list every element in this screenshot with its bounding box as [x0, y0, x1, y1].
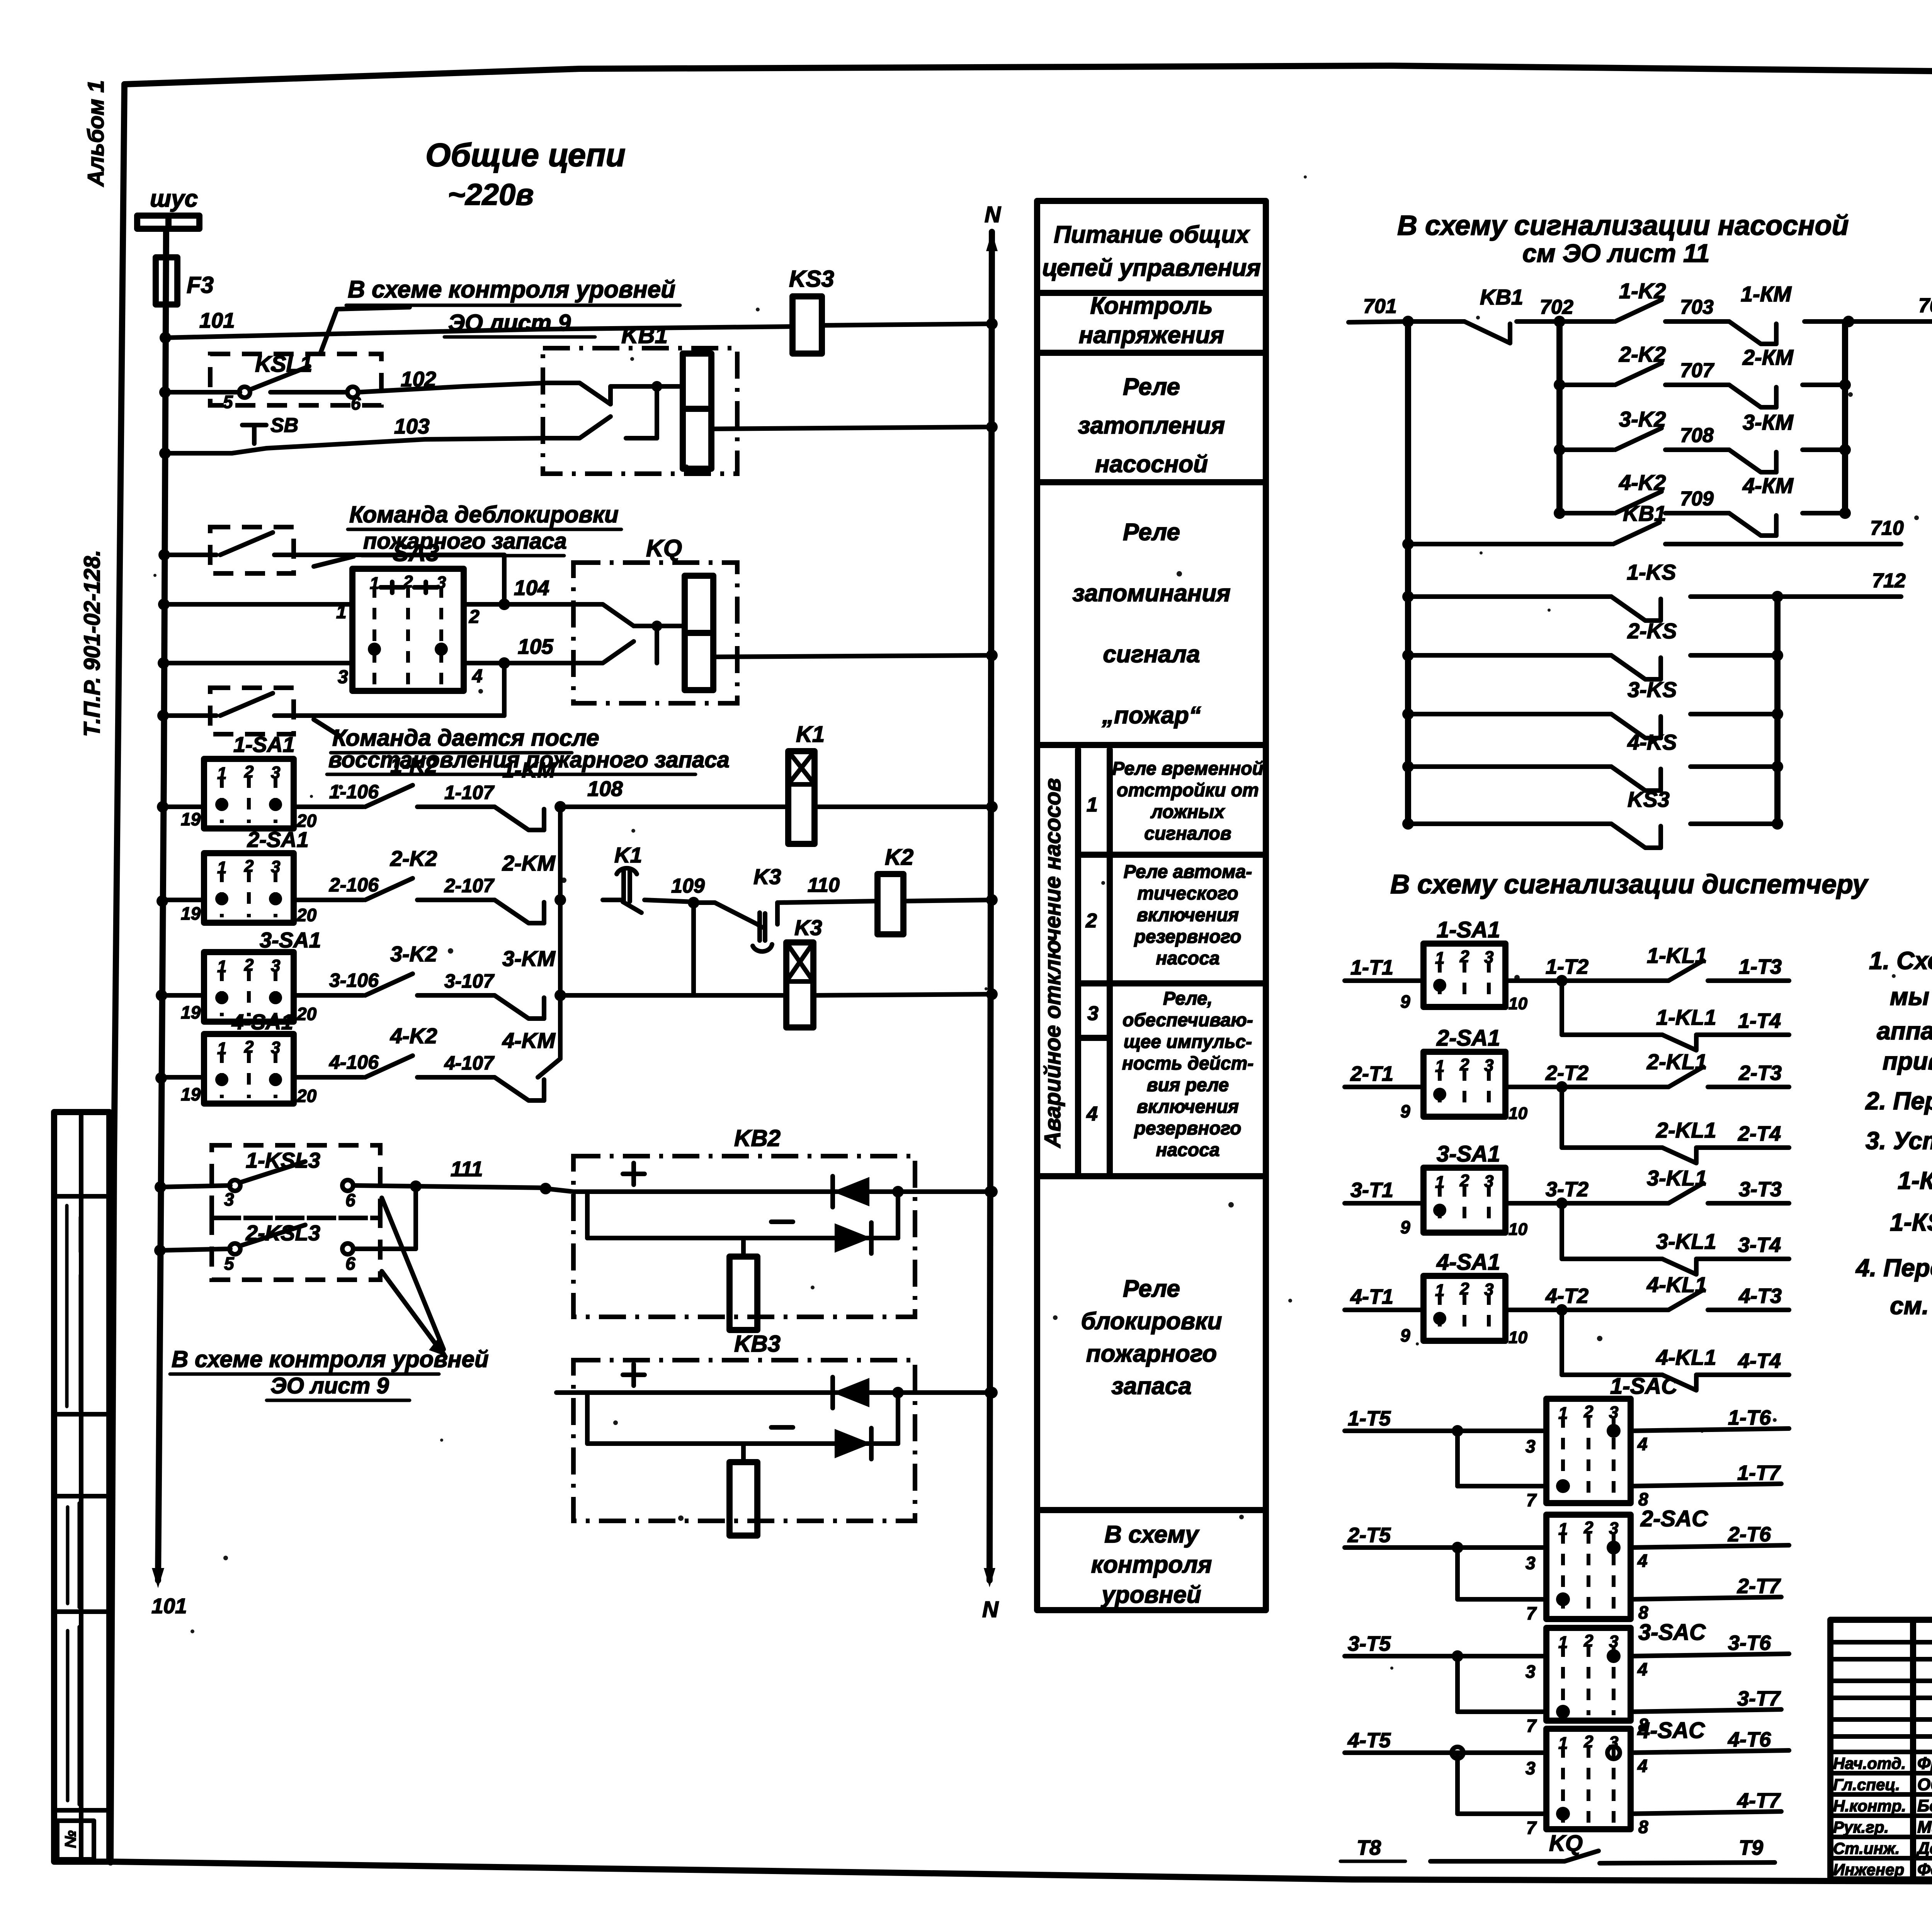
- svg-text:1: 1: [370, 574, 379, 593]
- svg-text:704: 704: [1918, 294, 1932, 317]
- wire 4-T2: [1505, 1308, 1668, 1312]
- wire 2-107: [417, 898, 495, 902]
- contact 3-KL1 b: [1662, 1259, 1696, 1274]
- node kls3-2: [154, 1245, 166, 1256]
- 3-SAC dot left: [1556, 1705, 1570, 1719]
- svg-text:В схеме контроля уровней: В схеме контроля уровней: [348, 276, 675, 303]
- relay KB2 dash-dot box: [573, 1156, 915, 1317]
- switch 2-SAC box: [1546, 1515, 1631, 1619]
- svg-text:20: 20: [296, 1086, 317, 1106]
- SA3 top position marks: [381, 582, 437, 593]
- wire T9: [1600, 1862, 1775, 1863]
- svg-text:3: 3: [1526, 1758, 1536, 1778]
- node row1: [157, 801, 168, 813]
- svg-text:1-Т7: 1-Т7: [1737, 1461, 1781, 1485]
- contact 2-КМ: [1729, 385, 1776, 407]
- svg-text:Команда дается после: Команда дается после: [332, 725, 599, 751]
- svg-text:2-KL1: 2-KL1: [1646, 1049, 1707, 1074]
- contact K1 (time): [603, 898, 622, 902]
- wire 1-T5: [1345, 1429, 1546, 1433]
- callout arrow to KSL3: [382, 1198, 444, 1349]
- contact 3-KS: [1402, 708, 1414, 720]
- junction N bus y2329: [986, 894, 998, 906]
- function table row line y913: [1037, 350, 1266, 356]
- svg-text:KQ: KQ: [1549, 1831, 1583, 1856]
- svg-text:2-106: 2-106: [329, 874, 379, 896]
- contact 3-K2: [1560, 447, 1613, 452]
- svg-text:4-Т1: 4-Т1: [1350, 1285, 1393, 1308]
- wire row3 to K3 coil: [560, 993, 786, 998]
- svg-text:4-Т5: 4-Т5: [1347, 1729, 1391, 1752]
- svg-text:4. Перечень элементов настояще: 4. Перечень элементов настоящей схемы: [1855, 1254, 1932, 1282]
- svg-text:включения: включения: [1137, 905, 1239, 925]
- wire 703: [1665, 319, 1729, 324]
- wire 109: [645, 900, 694, 902]
- svg-text:2-SA1: 2-SA1: [1436, 1026, 1500, 1051]
- svg-text:4-SA1: 4-SA1: [231, 1010, 293, 1034]
- svg-text:3: 3: [1526, 1553, 1536, 1573]
- svg-text:10: 10: [1509, 1220, 1527, 1239]
- svg-text:Команда деблокировки: Команда деблокировки: [349, 502, 619, 527]
- relay KB3 dash-dot box: [573, 1360, 915, 1521]
- relay coil KS3: [793, 296, 822, 354]
- svg-text:Общие цепи: Общие цепи: [425, 137, 626, 173]
- vertical link rows: [558, 807, 563, 1059]
- wire 4-T6: [1631, 1750, 1789, 1753]
- svg-text:4-Т2: 4-Т2: [1545, 1284, 1588, 1308]
- KB2 diode D2: [835, 1223, 871, 1253]
- svg-text:9: 9: [1400, 1325, 1410, 1345]
- svg-text:2-KS: 2-KS: [1627, 619, 1677, 643]
- contact 1-K2: [365, 785, 413, 807]
- button SB: [242, 425, 266, 444]
- wire 4-T1: [1345, 1308, 1423, 1312]
- contact 2-KSL3 dashed box: [212, 1218, 380, 1280]
- contact 3-KL1: [1668, 1183, 1703, 1203]
- wire bus to 2-KSL3: [160, 1249, 230, 1250]
- wire 102 left: [165, 390, 240, 395]
- signature table row y4350: [1830, 1679, 1932, 1683]
- svg-text:7: 7: [1526, 1716, 1537, 1736]
- svg-text:101: 101: [151, 1594, 187, 1618]
- node 109: [688, 897, 699, 908]
- wire 1-T4: [1696, 1032, 1789, 1037]
- svg-text:В схему сигнализации диспетчер: В схему сигнализации диспетчеру: [1390, 869, 1869, 899]
- node line102: [159, 386, 171, 398]
- svg-text:F3: F3: [187, 272, 214, 298]
- signature table row y4450: [1830, 1717, 1932, 1722]
- svg-text:2: 2: [1459, 1279, 1469, 1298]
- contact KSL1 dashed box: [210, 354, 381, 405]
- signature row Рук.гр.: [1830, 1835, 1932, 1839]
- svg-text:3. Уставки времени реле принят: 3. Уставки времени реле принять:: [1866, 1127, 1932, 1155]
- svg-text:4: 4: [1637, 1551, 1648, 1571]
- svg-text:2-КМ: 2-КМ: [1742, 345, 1794, 369]
- relay KB1 dash-dot box: [543, 348, 737, 474]
- svg-text:шус: шус: [150, 185, 198, 212]
- left margin stamp scribbles: [67, 1206, 80, 1410]
- svg-text:сигналов: сигналов: [1144, 823, 1231, 844]
- svg-text:KS3: KS3: [1628, 787, 1670, 811]
- wire to right bus y1328: [1803, 511, 1845, 515]
- svg-text:105: 105: [518, 634, 554, 658]
- svg-text:4-Т3: 4-Т3: [1738, 1284, 1782, 1308]
- junction N bus y3084: [985, 1186, 996, 1197]
- relay KQ contact: [573, 604, 634, 626]
- svg-text:1-KL1: 1-KL1: [1647, 943, 1707, 968]
- svg-text:Нач.отд.: Нач.отд.: [1833, 1754, 1906, 1772]
- svg-text:Гл.спец.: Гл.спец.: [1833, 1776, 1900, 1794]
- branch 4-T4: [1560, 1310, 1564, 1375]
- KB3 diode row2 wire: [587, 1441, 898, 1446]
- contact K3 (time): [694, 900, 715, 905]
- wire K3 to N bus: [813, 994, 992, 995]
- 2-SAC dot right: [1607, 1541, 1621, 1554]
- KB3 diode row1 wire: [573, 1390, 992, 1395]
- 1-SAC dot left: [1556, 1479, 1570, 1493]
- fuse F3: [156, 257, 177, 304]
- svg-text:4-SAC: 4-SAC: [1637, 1718, 1705, 1743]
- svg-text:1-K2: 1-K2: [1619, 279, 1666, 303]
- selector switch 4-SA1 disp box: [1423, 1276, 1505, 1341]
- svg-text:Мизяк: Мизяк: [1917, 1818, 1932, 1837]
- left bus nasosnaya: [1405, 321, 1411, 824]
- svg-text:102: 102: [401, 367, 436, 391]
- branch node left y996: [1554, 379, 1565, 391]
- svg-text:3: 3: [271, 956, 280, 975]
- 4-SAC dot left: [1556, 1807, 1570, 1821]
- svg-text:Дорофеев: Дорофеев: [1916, 1839, 1932, 1858]
- contact deblock dashed box: [210, 527, 294, 573]
- contact 1-K2 rung: [1560, 319, 1613, 324]
- function table num divider 3/4: [1078, 1035, 1110, 1041]
- svg-text:2: 2: [1583, 1631, 1594, 1650]
- svg-text:3: 3: [271, 1038, 280, 1057]
- wire T8: [1430, 1859, 1565, 1864]
- svg-text:KB1: KB1: [1623, 501, 1666, 526]
- node line104: [158, 599, 170, 610]
- contact deblock blade: [166, 553, 216, 557]
- contact 1-KL1 b: [1662, 1035, 1696, 1050]
- svg-text:10: 10: [1509, 1328, 1527, 1347]
- relay KQ dash-dot box: [573, 563, 737, 703]
- wire 2-T1: [1345, 1085, 1423, 1089]
- svg-text:4-K2: 4-K2: [390, 1024, 437, 1048]
- svg-text:KS3: KS3: [789, 266, 834, 292]
- svg-text:KB1: KB1: [621, 322, 668, 348]
- wire 105 left: [163, 661, 352, 665]
- branch node left y1328: [1554, 507, 1565, 519]
- wire 103 left: [164, 451, 232, 456]
- svg-text:110: 110: [808, 874, 840, 896]
- wire cmd2 to 105: [294, 713, 504, 718]
- svg-text:1-KL1: 1-KL1: [1656, 1005, 1716, 1029]
- contact KB1 rung2: [1402, 538, 1414, 550]
- svg-text:1-Т5: 1-Т5: [1348, 1407, 1391, 1430]
- signature table frame: [1830, 1620, 1932, 1879]
- svg-text:2: 2: [1085, 910, 1097, 932]
- wire 3-T5: [1345, 1654, 1546, 1658]
- KB3 coil: [741, 1444, 746, 1462]
- svg-text:712: 712: [1872, 570, 1906, 592]
- svg-text:3-Т6: 3-Т6: [1728, 1631, 1771, 1655]
- svg-text:1-Т1: 1-Т1: [1350, 956, 1393, 979]
- svg-text:5: 5: [223, 392, 233, 412]
- node row2: [156, 895, 168, 907]
- branch 2-T7 left: [1455, 1548, 1460, 1599]
- svg-text:В схему: В схему: [1104, 1521, 1200, 1548]
- wire KQ to N bus: [713, 655, 992, 657]
- wire 111: [353, 1185, 546, 1188]
- svg-text:2: 2: [244, 1037, 254, 1056]
- svg-text:10: 10: [1509, 994, 1527, 1013]
- svg-text:мы аналогичны. Цифра „1“ в лев: мы аналогичны. Цифра „1“ в левой части о…: [1890, 983, 1932, 1010]
- svg-text:насоса: насоса: [1156, 948, 1219, 969]
- svg-text:3-SA1: 3-SA1: [1437, 1141, 1500, 1167]
- svg-text:Реле: Реле: [1123, 1276, 1180, 1302]
- junction N bus y2573: [986, 988, 998, 1000]
- wire 1-107: [417, 804, 495, 809]
- wire 3-KS to right bus: [1690, 712, 1777, 716]
- node 4-T5: [1452, 1747, 1463, 1759]
- right branch bus: [1842, 321, 1848, 513]
- contact 2-KS: [1402, 650, 1414, 661]
- wire KB3 row1 stub: [556, 1390, 573, 1395]
- svg-text:4-KM: 4-KM: [502, 1028, 556, 1053]
- svg-text:707: 707: [1680, 359, 1714, 382]
- node cmd2: [157, 710, 169, 721]
- svg-text:4-K2: 4-K2: [1619, 470, 1666, 495]
- svg-text:1-107: 1-107: [444, 782, 495, 803]
- signature table row y4250: [1830, 1640, 1932, 1645]
- svg-text:3: 3: [1484, 1172, 1493, 1191]
- wire KB1 to N bus: [711, 427, 992, 429]
- signature row Н.контр.: [1830, 1813, 1932, 1818]
- signature row Ст.инж.: [1830, 1856, 1932, 1861]
- contact 1-KM rung: [1729, 321, 1776, 344]
- wire 3-T2: [1505, 1201, 1668, 1206]
- svg-text:1: 1: [1558, 1633, 1568, 1652]
- wire 109 branch down: [691, 903, 696, 995]
- wire 2-T4: [1696, 1145, 1789, 1150]
- switch 4-SAC box: [1546, 1729, 1631, 1829]
- 1-SAC dot right: [1607, 1424, 1621, 1438]
- svg-text:Инженер: Инженер: [1833, 1861, 1904, 1879]
- svg-text:KB1: KB1: [1480, 285, 1523, 309]
- KB2 diode D1: [833, 1177, 869, 1206]
- svg-text:1: 1: [1435, 1173, 1444, 1192]
- svg-text:В схеме контроля уровней: В схеме контроля уровней: [172, 1346, 489, 1372]
- svg-text:3: 3: [1484, 1280, 1493, 1299]
- svg-text:KB3: KB3: [734, 1331, 781, 1357]
- contact KSL1: [239, 387, 250, 398]
- svg-text:2: 2: [1583, 1518, 1594, 1537]
- 2-SAC dot left: [1556, 1592, 1570, 1606]
- function table inner row y2212: [1078, 852, 1266, 858]
- svg-text:Обозная: Обозная: [1917, 1775, 1932, 1794]
- wire 2-T3: [1708, 1085, 1789, 1089]
- svg-text:3-Т1: 3-Т1: [1350, 1179, 1393, 1202]
- function table row line y3908: [1037, 1507, 1266, 1513]
- svg-text:1: 1: [217, 1039, 226, 1058]
- contact 1-KM: [495, 807, 544, 830]
- selector switch SA3 box: [352, 569, 464, 691]
- node row3 vert: [554, 990, 566, 1001]
- svg-text:ложных: ложных: [1150, 802, 1225, 822]
- svg-text:Реле временной: Реле временной: [1112, 759, 1264, 779]
- svg-text:1-KM: 1-KM: [502, 758, 556, 782]
- KB2 plus sign: [623, 1163, 645, 1185]
- svg-text:2-107: 2-107: [444, 875, 495, 896]
- KB2 minus sign: [771, 1219, 793, 1224]
- svg-text:20: 20: [296, 1004, 317, 1024]
- svg-text:1-SA1: 1-SA1: [233, 732, 295, 757]
- wire 2-T7: [1631, 1597, 1781, 1599]
- wire 704: [1804, 319, 1932, 324]
- svg-text:4: 4: [1637, 1434, 1648, 1454]
- svg-text:SB: SB: [270, 414, 298, 437]
- wire 3-T7: [1631, 1709, 1781, 1712]
- wire 1-T6: [1631, 1429, 1789, 1431]
- branch 3-T7 left: [1455, 1656, 1460, 1712]
- contact 4-KS: [1402, 761, 1414, 772]
- svg-text:уровней: уровней: [1100, 1582, 1201, 1608]
- sheet top border frame: [124, 66, 1932, 84]
- signature table row y4534: [1830, 1750, 1932, 1754]
- svg-text:9: 9: [1400, 992, 1410, 1012]
- relay KB1 changeover contact: [546, 383, 611, 404]
- wire 1-T7: [1631, 1484, 1781, 1486]
- svg-text:блокировки: блокировки: [1081, 1308, 1222, 1335]
- contact KS3: [1402, 818, 1414, 830]
- wire bus to 4-SA1: [160, 1075, 204, 1080]
- svg-text:3-K2: 3-K2: [390, 942, 437, 966]
- selector switch 1-SA1 disp box: [1423, 944, 1505, 1007]
- svg-text:резервного: резервного: [1134, 927, 1242, 947]
- wire 4-106: [294, 1075, 363, 1080]
- switch 1-SAC box: [1546, 1399, 1631, 1503]
- wire 1-106: [294, 804, 363, 809]
- wire K1 to N bus: [815, 804, 992, 809]
- svg-text:3: 3: [1609, 1519, 1618, 1538]
- svg-text:701: 701: [1363, 295, 1397, 318]
- wire 702: [1517, 319, 1560, 324]
- svg-text:отстройки от: отстройки от: [1117, 780, 1259, 801]
- wire 105 right: [464, 661, 573, 665]
- wire 709: [1665, 511, 1729, 515]
- function table row line y3044: [1037, 1173, 1266, 1179]
- contact 3-K2: [365, 974, 413, 995]
- svg-text:702: 702: [1540, 296, 1573, 318]
- svg-text:3: 3: [1484, 948, 1493, 967]
- function table number col: [1107, 750, 1113, 1176]
- KB2 diode row1 wire: [573, 1189, 992, 1194]
- wire KS3 to right bus: [1690, 821, 1777, 826]
- contact 3-KM: [495, 995, 544, 1019]
- svg-text:9: 9: [1400, 1217, 1410, 1237]
- node row2 vert: [554, 894, 566, 906]
- svg-text:19: 19: [181, 1084, 201, 1104]
- svg-text:103: 103: [394, 414, 430, 438]
- svg-text:3-KL1: 3-KL1: [1656, 1229, 1716, 1253]
- svg-text:Н.контр.: Н.контр.: [1833, 1797, 1906, 1815]
- svg-text:KB2: KB2: [734, 1125, 781, 1151]
- svg-text:9: 9: [1400, 1101, 1410, 1121]
- node deblock: [158, 549, 170, 561]
- wire 101 to KS3: [165, 327, 793, 338]
- svg-text:3: 3: [224, 1189, 234, 1209]
- node kls3-1: [155, 1181, 166, 1193]
- wire 2-106: [294, 898, 363, 902]
- svg-text:4-KS: 4-KS: [1627, 730, 1677, 754]
- svg-text:4-Т7: 4-Т7: [1737, 1789, 1781, 1812]
- node row3: [156, 990, 167, 1001]
- svg-text:4-Т4: 4-Т4: [1738, 1349, 1781, 1372]
- svg-text:1-КМ: 1-КМ: [1741, 282, 1792, 306]
- svg-text:3-SA1: 3-SA1: [260, 928, 321, 952]
- svg-text:3-Т2: 3-Т2: [1546, 1178, 1588, 1201]
- svg-text:5: 5: [224, 1253, 235, 1274]
- svg-text:аппаратов и маркировки цепей,: аппаратов и маркировки цепей, обозначающ…: [1877, 1017, 1932, 1045]
- node line103: [159, 447, 171, 459]
- KB2 node after D1: [892, 1186, 904, 1197]
- wire to right bus y1164: [1803, 447, 1845, 452]
- svg-text:3-Т7: 3-Т7: [1737, 1687, 1781, 1710]
- svg-text:Питание общих: Питание общих: [1054, 221, 1250, 248]
- signature row Инженер: [1830, 1877, 1932, 1882]
- node 3-T5: [1452, 1650, 1463, 1662]
- wire 2-T6: [1631, 1545, 1789, 1548]
- svg-text:Т8: Т8: [1357, 1836, 1381, 1859]
- svg-text:ЭО лист 9: ЭО лист 9: [448, 310, 571, 336]
- selector switch 4-SA1 box: [204, 1034, 294, 1104]
- svg-text:3: 3: [1526, 1662, 1536, 1682]
- svg-text:Т.П.Р. 901-02-128.: Т.П.Р. 901-02-128.: [80, 550, 105, 737]
- svg-text:111: 111: [451, 1157, 483, 1181]
- svg-text:Бондарь: Бондарь: [1917, 1796, 1932, 1815]
- svg-text:6: 6: [351, 393, 361, 413]
- svg-text:3-107: 3-107: [444, 970, 495, 992]
- svg-text:3: 3: [338, 667, 348, 687]
- wire 707: [1665, 383, 1729, 387]
- node 108: [554, 801, 566, 813]
- svg-text:1-SA1: 1-SA1: [1437, 917, 1500, 942]
- contact 1-KSL3 dashed box: [212, 1145, 380, 1218]
- function table row line y1928: [1037, 742, 1266, 748]
- svg-text:включения: включения: [1137, 1097, 1239, 1117]
- svg-text:3-SAC: 3-SAC: [1638, 1620, 1706, 1645]
- svg-text:N: N: [985, 202, 1001, 227]
- svg-text:2. Перечень аппаратуры приведе: 2. Перечень аппаратуры приведен для четы…: [1865, 1087, 1932, 1115]
- svg-text:4: 4: [1637, 1756, 1648, 1776]
- sheet left border frame: [111, 84, 124, 1862]
- wire 2-KSL3 up to 111: [353, 1247, 416, 1251]
- svg-text:1-KS: 1-KS: [1627, 560, 1676, 584]
- contact 1-KL1: [1668, 961, 1703, 981]
- svg-text:Рук.гр.: Рук.гр.: [1833, 1818, 1889, 1836]
- function table inner row y3044: [1078, 1173, 1266, 1179]
- svg-text:K1: K1: [614, 843, 642, 867]
- function table frame: [1037, 201, 1266, 1610]
- svg-text:1: 1: [1435, 1057, 1444, 1076]
- wire to right bus y996: [1803, 383, 1845, 387]
- svg-text:2-KM: 2-KM: [502, 851, 556, 875]
- svg-text:2-Т7: 2-Т7: [1737, 1575, 1781, 1598]
- svg-text:709: 709: [1680, 488, 1714, 510]
- svg-text:3-Т3: 3-Т3: [1739, 1178, 1782, 1201]
- svg-text:цепей управления: цепей управления: [1042, 255, 1261, 281]
- signature table col x4951: [1910, 1620, 1916, 1879]
